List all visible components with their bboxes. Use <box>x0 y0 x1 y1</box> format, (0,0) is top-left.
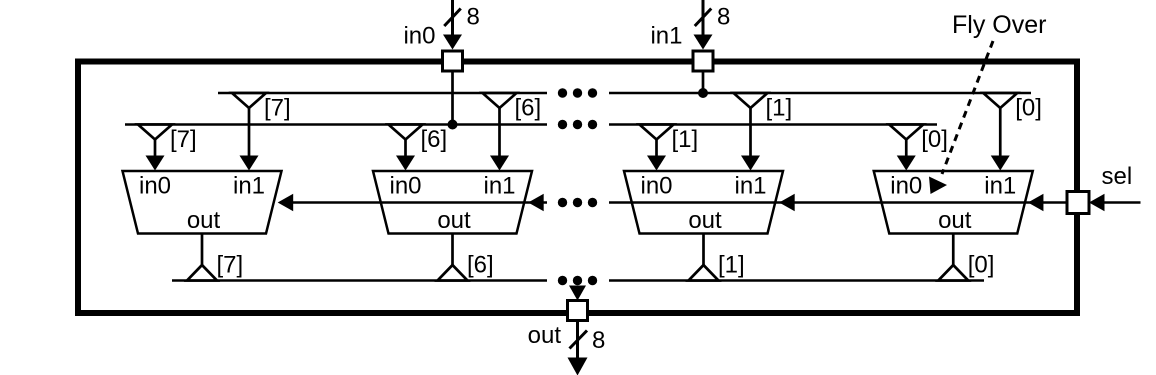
wire: in1 port to in1 bus <box>702 71 705 93</box>
wire: in1 bit 7 stem <box>248 107 251 157</box>
annotation dashed leader line <box>942 41 993 174</box>
bus width slash (out) <box>570 331 588 349</box>
mux U2 (bit 6) 2:1 multiplexer <box>373 171 532 234</box>
svg-text:8: 8 <box>592 327 605 354</box>
svg-text:8: 8 <box>717 4 730 31</box>
svg-text:in0: in0 <box>139 173 171 200</box>
wire: out bus segment left <box>172 279 547 281</box>
svg-text:in1: in1 <box>734 173 766 200</box>
svg-text:[7]: [7] <box>170 126 197 153</box>
svg-text:[6]: [6] <box>467 252 494 279</box>
svg-text:out: out <box>938 207 972 234</box>
port square out <box>568 301 588 321</box>
port square in0 <box>443 51 463 71</box>
arrowhead into mux in0 (bit 6) <box>396 156 415 171</box>
wire: in1 bit 1 stem <box>749 107 752 157</box>
ellipsis dots (sel line continuation) <box>558 198 597 207</box>
ellipsis dots (out bus continuation) <box>558 276 597 285</box>
wire: in1 bus upper segment left <box>218 92 547 94</box>
svg-text:in0: in0 <box>389 173 421 200</box>
bus ripper [7] onto out bus <box>187 265 217 281</box>
wire: out external (8-bit) <box>576 321 579 359</box>
svg-text:in0: in0 <box>640 173 672 200</box>
bus ripper [7] on in1 bus <box>232 93 266 108</box>
mux U1 (bit 7) 2:1 multiplexer <box>123 171 282 234</box>
svg-text:[1]: [1] <box>672 126 699 153</box>
wire: in0 port to in0 bus (crosses in1 bus) <box>451 71 454 125</box>
bus width slash (in0) <box>444 9 461 27</box>
wire: in0 bit 1 stem <box>655 139 658 158</box>
arrowhead into mux in1 (bit 1) <box>741 156 760 171</box>
svg-text:in1: in1 <box>483 173 515 200</box>
wire: out bit 0 stem <box>952 234 955 267</box>
bus width slash (in1) <box>695 9 712 27</box>
arrowhead in1 into port <box>694 35 713 50</box>
wire: in0 bus lower segment left <box>125 123 547 125</box>
svg-text:[0]: [0] <box>1015 95 1042 122</box>
svg-text:[7]: [7] <box>217 252 244 279</box>
svg-text:[1]: [1] <box>718 252 745 279</box>
block boundary (8-bit mux2 component box) <box>78 62 1077 314</box>
svg-text:in1: in1 <box>650 23 682 50</box>
arrowhead into mux in0 (bit 1) <box>647 156 666 171</box>
wire: sel segment to ellipsis <box>609 201 632 204</box>
mux U3 (bit 1) 2:1 multiplexer <box>624 171 783 234</box>
bus ripper [1] onto out bus <box>689 265 719 281</box>
svg-text:[6]: [6] <box>421 126 448 153</box>
svg-text:[0]: [0] <box>968 252 995 279</box>
mux U4 (bit 0) 2:1 multiplexer <box>874 171 1033 234</box>
arrowhead into mux in1 (bit 7) <box>240 156 259 171</box>
bus ripper [1] on in0 bus <box>640 125 674 140</box>
svg-text:in1: in1 <box>984 173 1016 200</box>
arrowhead sel into mux U4 <box>1028 194 1044 212</box>
svg-text:in1: in1 <box>233 173 265 200</box>
bus ripper [0] on in0 bus <box>889 125 923 140</box>
svg-text:[1]: [1] <box>766 95 793 122</box>
ellipsis dots (in1 bus continuation) <box>558 88 597 97</box>
ellipsis dots (in0 bus continuation) <box>558 120 597 129</box>
wire: out bit 6 stem <box>451 234 454 267</box>
bus ripper [6] on in1 bus <box>483 93 517 108</box>
wire: sel through mux U3 (fly over) <box>632 201 882 204</box>
arrowhead sel into mux U2 <box>528 194 544 212</box>
bus ripper [6] onto out bus <box>438 265 468 281</box>
svg-text:out: out <box>437 207 471 234</box>
wire: in0 bus lower segment right <box>609 123 937 125</box>
arrowhead out bus into out port <box>569 286 586 301</box>
wire: sel stub outside box <box>1104 201 1141 204</box>
port square sel <box>1067 192 1089 214</box>
svg-text:[7]: [7] <box>264 95 291 122</box>
arrowhead into mux in0 (bit 0) <box>897 156 916 171</box>
arrowhead in0 into port <box>443 35 462 50</box>
svg-text:Fly Over: Fly Over <box>952 11 1046 39</box>
svg-text:[0]: [0] <box>921 126 948 153</box>
annotation arrowhead (points at fly-over) <box>929 177 947 195</box>
wire: sel segment to mux U1 <box>280 201 381 204</box>
bus ripper [1] on in1 bus <box>734 93 768 108</box>
arrowhead into mux in0 (bit 7) <box>146 156 165 171</box>
svg-text:[6]: [6] <box>515 95 542 122</box>
bus ripper [6] on in0 bus <box>389 125 423 140</box>
arrowhead into mux in1 (bit 0) <box>991 156 1010 171</box>
arrowhead out external <box>568 358 588 375</box>
arrowhead sel into mux U1 <box>278 194 294 212</box>
junction dot in0/in0-bus <box>448 120 458 130</box>
arrowhead sel into mux U3 <box>779 194 795 212</box>
wire: in1 external (8-bit) <box>702 0 705 36</box>
wire: out bus segment right <box>609 279 984 281</box>
bus ripper [0] onto out bus <box>938 265 968 281</box>
svg-text:out: out <box>528 322 562 349</box>
svg-text:in0: in0 <box>403 23 435 50</box>
arrowhead sel into port <box>1089 194 1105 212</box>
wire: sel through mux U2 (fly over) <box>381 201 547 204</box>
wire: out bit 7 stem <box>201 234 204 267</box>
wire: in1 bit 6 stem <box>498 107 501 157</box>
svg-text:out: out <box>187 207 221 234</box>
wire: in0 bit 7 stem <box>154 139 157 158</box>
bus ripper [0] on in1 bus <box>983 93 1017 108</box>
wire: in0 bit 0 stem <box>905 139 908 158</box>
wire: sel from port through mux U4 (fly over) <box>882 201 1067 204</box>
svg-text:out: out <box>688 207 722 234</box>
junction dot in1/in1-bus <box>698 88 708 98</box>
svg-text:8: 8 <box>467 4 480 31</box>
svg-text:sel: sel <box>1102 163 1133 190</box>
wire: in1 bit 0 stem <box>999 107 1002 157</box>
wire: in1 bus upper segment right <box>609 92 1031 94</box>
wire: in0 bit 6 stem <box>404 139 407 158</box>
svg-text:in0: in0 <box>890 173 922 200</box>
port square in1 <box>693 51 713 71</box>
wire: out bit 1 stem <box>702 234 705 267</box>
arrowhead into mux in1 (bit 6) <box>490 156 509 171</box>
bus ripper [7] on in0 bus <box>138 125 172 140</box>
wire: in0 external (8-bit) <box>451 0 454 36</box>
